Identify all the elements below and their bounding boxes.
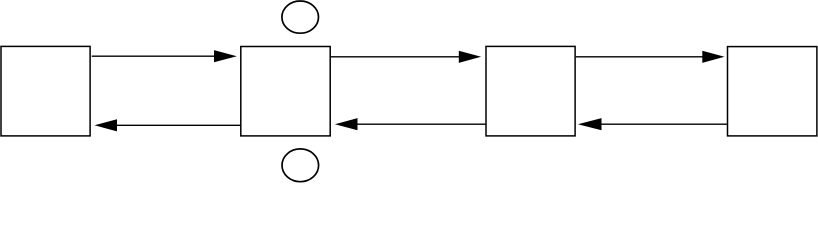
ellipse bottom	[282, 149, 319, 182]
arrow box3 back to box2	[335, 118, 486, 130]
box 1	[1, 46, 90, 135]
arrow box2 to box3	[331, 51, 481, 63]
box 3	[486, 46, 575, 135]
ellipse top	[282, 1, 319, 33]
box 4	[728, 47, 817, 136]
arrow box3 to box4	[576, 51, 725, 63]
box 2	[241, 47, 330, 136]
arrow box4 back to box3	[578, 118, 728, 130]
arrow box2 back to box1	[95, 119, 241, 131]
arrow box1 to box2	[92, 50, 237, 62]
